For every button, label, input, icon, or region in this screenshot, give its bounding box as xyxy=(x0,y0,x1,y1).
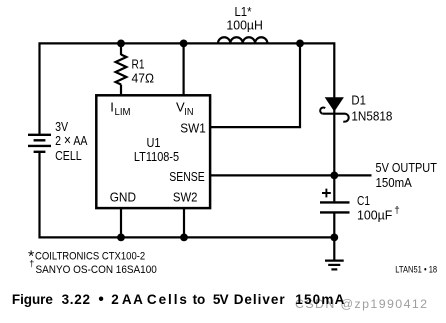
diode D1 schottky bar xyxy=(323,113,346,115)
svg-text:47Ω: 47Ω xyxy=(132,71,155,86)
svg-text:COILTRONICS CTX100-2: COILTRONICS CTX100-2 xyxy=(35,251,145,263)
wire: SW2 pin to bottom rail xyxy=(183,208,185,238)
svg-text:C1: C1 xyxy=(357,193,370,208)
svg-text:SW2: SW2 xyxy=(173,190,198,205)
svg-text:GND: GND xyxy=(110,190,136,205)
inductor L1 xyxy=(218,37,267,43)
diode D1 triangle xyxy=(325,97,344,111)
node B (VIN / top rail) xyxy=(180,40,188,48)
wire: diode cathode down to C1 top plate xyxy=(333,110,335,201)
wire: SENSE pin to output node and output stub xyxy=(210,174,372,176)
resistor R1 xyxy=(116,55,127,85)
svg-text:U1: U1 xyxy=(147,135,161,150)
wire: battery bottom down and bottom rail to ground node xyxy=(40,152,335,238)
svg-text:CELL: CELL xyxy=(55,148,82,163)
svg-text:LT1108-5: LT1108-5 xyxy=(134,149,179,164)
svg-text:LIM: LIM xyxy=(115,107,131,118)
capacitor C1 plus sign xyxy=(322,189,331,198)
svg-text:I: I xyxy=(110,99,114,114)
svg-text:LTAN51 • 18: LTAN51 • 18 xyxy=(395,264,437,274)
wire: battery top up, full top rail, down to diode xyxy=(40,43,335,135)
battery 3V 2xAA cell plates xyxy=(28,135,51,152)
svg-text:†: † xyxy=(29,259,34,269)
ground xyxy=(325,261,344,270)
wire: SW1 pin to top rail branch xyxy=(210,43,301,127)
wire: C1 bottom plate to bottom rail xyxy=(333,213,335,237)
capacitor C1 plates xyxy=(320,201,350,203)
svg-text:IN: IN xyxy=(184,107,193,118)
svg-text:1N5818: 1N5818 xyxy=(351,108,392,123)
svg-text:SENSE: SENSE xyxy=(169,170,205,184)
diode D1 left curl xyxy=(320,108,325,114)
svg-text:D1: D1 xyxy=(351,93,366,108)
node G (ground / bottom rail) xyxy=(330,234,338,242)
svg-text:150mA: 150mA xyxy=(376,175,413,190)
svg-text:5V OUTPUT: 5V OUTPUT xyxy=(376,160,437,175)
node C (SW1 branch / top rail) xyxy=(296,40,304,48)
wire: R1 top lead from node A xyxy=(120,43,122,55)
svg-text:SW1: SW1 xyxy=(180,121,206,136)
wire: VIN pin from top rail xyxy=(183,43,185,96)
node F (SW2 / bottom rail) xyxy=(180,234,188,242)
wire: R1 bottom lead to ILIM pin xyxy=(120,85,122,97)
node D (output) xyxy=(330,172,338,180)
wire: ground stub xyxy=(333,237,335,259)
node A (R1 / top rail) xyxy=(117,40,125,48)
svg-text:100µF: 100µF xyxy=(357,208,392,223)
diode D1 right curl xyxy=(343,114,348,122)
svg-text:R1: R1 xyxy=(132,56,145,71)
wire: GND pin to bottom rail xyxy=(120,208,122,238)
IC U1 LT1108-5 body xyxy=(96,95,210,208)
svg-text:SANYO OS-CON 16SA100: SANYO OS-CON 16SA100 xyxy=(36,264,157,276)
svg-text:2 × AA: 2 × AA xyxy=(55,132,88,149)
svg-text:100µH: 100µH xyxy=(226,18,263,33)
svg-text:†: † xyxy=(394,206,400,217)
node E (GND / bottom rail) xyxy=(117,234,125,242)
